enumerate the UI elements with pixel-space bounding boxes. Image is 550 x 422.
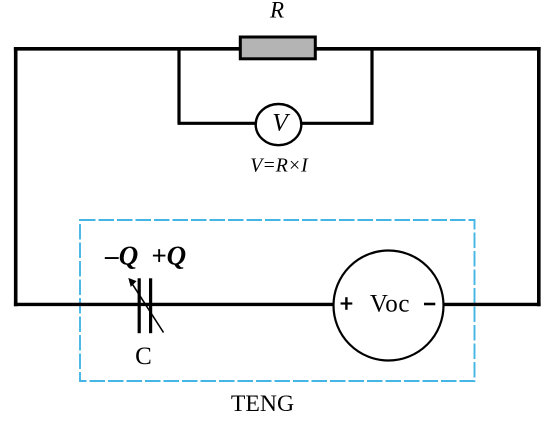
svg-text:R: R [269, 0, 284, 23]
svg-text:+Q: +Q [151, 241, 186, 271]
svg-text:–Q: –Q [104, 241, 138, 271]
TENG dashed box [80, 220, 475, 381]
svg-text:C: C [135, 343, 152, 370]
capacitor variable arrow [128, 278, 163, 333]
wire bottom [14, 303, 541, 306]
capacitor C left plate [138, 278, 141, 333]
source Voc circle [334, 251, 444, 361]
svg-text:V=R×I: V=R×I [250, 154, 309, 176]
wire voltmeter branch left vertical [177, 48, 180, 123]
label plus [341, 297, 353, 310]
svg-text:TENG: TENG [231, 391, 294, 417]
voltmeter U-V circle [256, 104, 302, 145]
wire voltmeter branch right vertical [370, 48, 373, 123]
label minus [424, 303, 435, 306]
svg-text:Voc: Voc [370, 291, 410, 318]
capacitor C right plate [149, 278, 152, 333]
wire top [14, 47, 541, 51]
wire right [537, 47, 541, 306]
wire voltmeter branch horizontal [178, 122, 374, 125]
resistor R [240, 37, 315, 59]
wire left [14, 47, 18, 306]
